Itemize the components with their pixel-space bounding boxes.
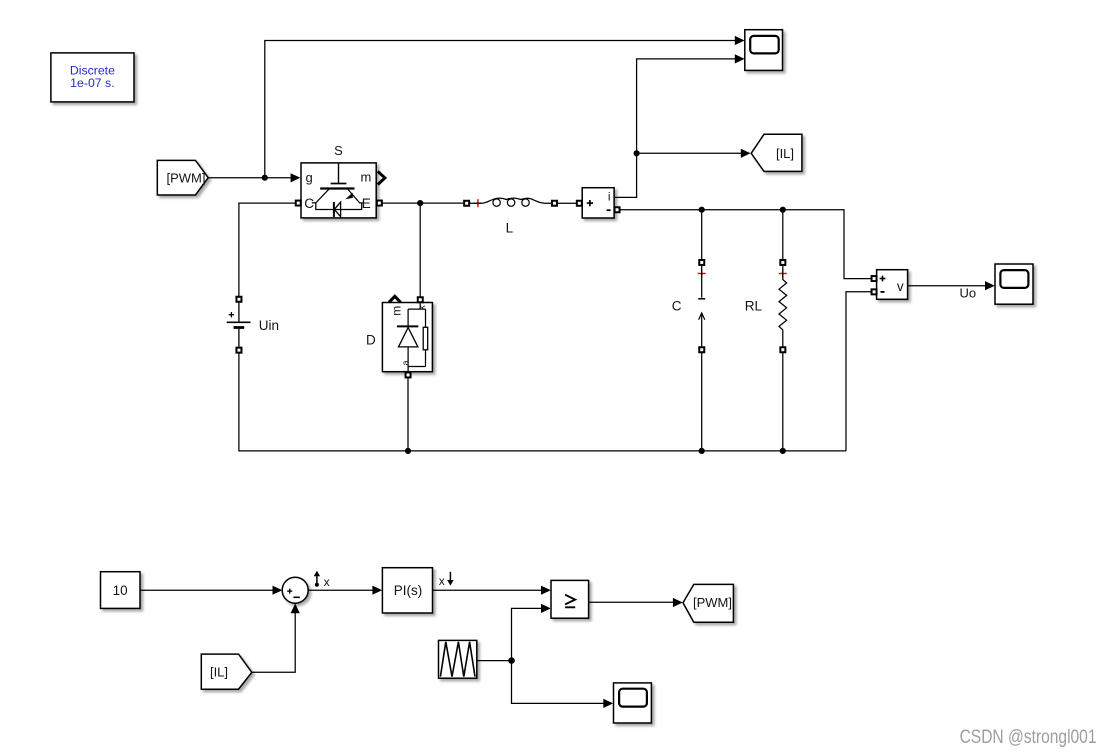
wire relational operator to PWM goto (589, 598, 683, 607)
svg-text:x: x (324, 575, 330, 589)
watermark CSDN @strongl001 (960, 726, 1097, 748)
Goto tag [IL] (751, 134, 802, 171)
Goto tag [PWM] (683, 584, 733, 622)
inductor L (464, 198, 557, 236)
wire v output to scope Uo (908, 281, 995, 290)
svg-text:[PWM]: [PWM] (167, 170, 206, 185)
svg-text:a: a (400, 360, 410, 365)
junction capacitor to ground rail (699, 448, 705, 454)
resistor branch RL (745, 210, 787, 451)
wire IL to sum minus input (252, 603, 300, 672)
wire IGBT emitter to inductor (382, 202, 463, 204)
voltage measurement v (872, 270, 908, 300)
svg-text:CSDN @strongl001: CSDN @strongl001 (960, 726, 1097, 748)
svg-text:PI(s): PI(s) (394, 583, 423, 598)
svg-text:10: 10 (113, 583, 128, 598)
Scope (PWM carrier, bottom) (614, 683, 652, 723)
wire junction down to scope (512, 661, 614, 708)
junction triangle output (508, 657, 515, 664)
current measurement i (577, 188, 620, 218)
wire PI to relational operator input 1 (433, 586, 551, 595)
junction on PWM wire (262, 175, 268, 181)
svg-text:m: m (390, 306, 404, 316)
wire junction up to relational operator input 2 (512, 604, 551, 661)
wire Uin to IGBT collector (239, 203, 295, 296)
svg-text:C: C (672, 299, 682, 314)
wire i output up to Scope input 2 (614, 54, 745, 197)
svg-text:D: D (366, 333, 376, 348)
battery Uin (227, 297, 279, 353)
svg-text:L: L (506, 221, 514, 236)
svg-text:[PWM]: [PWM] (693, 595, 732, 610)
junction capacitor top (699, 207, 705, 213)
wire v minus to ground rail (846, 292, 871, 451)
Scope (IL and PWM, 2 inputs) (745, 30, 783, 71)
svg-text:S: S (334, 143, 343, 158)
svg-text:[IL]: [IL] (776, 146, 794, 161)
svg-text:RL: RL (745, 299, 763, 314)
relational operator >= (551, 580, 589, 618)
svg-text:Uo: Uo (960, 285, 977, 300)
wire i minus to v plus (output rail) (620, 210, 871, 279)
wire [PWM] to IGBT gate (208, 173, 300, 182)
junction RL top (780, 207, 786, 213)
sum block (282, 577, 308, 603)
diode D (366, 296, 432, 377)
wire sum to PI (308, 586, 382, 595)
svg-text:1e-07 s.: 1e-07 s. (70, 76, 114, 90)
wire battery to ground rail (239, 353, 846, 451)
sample time annotation up-down arrow and x (314, 571, 330, 589)
PI(s) controller (382, 568, 432, 613)
wire constant to sum (140, 586, 282, 595)
wire junction down to diode (419, 203, 421, 296)
wire inductor to current sensor (558, 202, 577, 204)
constant 10 (101, 572, 141, 609)
annotation x with down arrow (439, 572, 454, 588)
svg-text:[IL]: [IL] (210, 665, 228, 680)
junction on i output wire (634, 150, 640, 156)
wire triangle generator to junction (477, 660, 512, 662)
svg-text:i: i (608, 189, 611, 203)
wire junction to Goto tag IL (637, 149, 751, 158)
svg-text:Uin: Uin (259, 318, 279, 333)
wire diode to ground rail (407, 378, 409, 451)
wire junction up to Scope input 1 (265, 36, 745, 178)
svg-text:E: E (362, 196, 371, 211)
capacitor branch C (672, 210, 706, 451)
junction diode to ground rail (405, 448, 411, 454)
From tag [IL] (bottom) (201, 654, 252, 689)
svg-text:g: g (306, 170, 313, 185)
svg-text:v: v (897, 279, 904, 294)
triangle wave generator (439, 640, 477, 678)
svg-text:m: m (361, 170, 372, 185)
From tag [PWM] (157, 160, 208, 195)
Scope Uo (995, 264, 1033, 304)
junction emitter node (417, 200, 423, 206)
svg-text:x: x (439, 574, 445, 588)
powergui block Discrete 1e-07 s. (51, 53, 134, 102)
IGBT block S (296, 143, 385, 218)
junction RL to ground rail (780, 448, 786, 454)
